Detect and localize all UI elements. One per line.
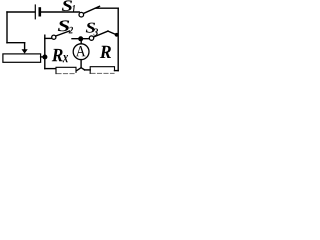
rheostat slider arrowhead — [22, 49, 28, 53]
switch S3 blade — [94, 31, 108, 37]
node junction dot ammeter/S3 — [78, 36, 83, 41]
Rx label subscript x — [63, 55, 68, 62]
wire to rheostat slider — [7, 42, 25, 44]
rheostat slider arrow stem — [24, 43, 26, 50]
switch S2 blade — [56, 31, 70, 36]
Rx label R — [52, 49, 63, 61]
wire battery to S1 — [41, 11, 79, 13]
S1 label S — [62, 0, 72, 11]
wire corner to Rx box — [45, 68, 56, 70]
ammeter label A — [76, 46, 86, 56]
wire ammeter bottom stub — [80, 60, 82, 68]
wire S3 contact lead — [108, 31, 116, 35]
wire right vertical — [117, 8, 119, 70]
wire bottom-right corner to R box — [115, 70, 119, 72]
switch S3 pivot circle — [89, 36, 93, 40]
wire top-left horizontal — [7, 11, 35, 13]
wire rheostat to node A — [41, 56, 45, 58]
ammeter U1 circle — [73, 44, 89, 60]
rheostat box — [3, 54, 41, 62]
S2 label subscript 2 — [69, 27, 73, 34]
wire left vertical — [6, 12, 8, 43]
S3 label S — [86, 23, 95, 33]
wire ammeter top stub — [80, 41, 82, 44]
S3 label subscript 3 — [93, 29, 98, 36]
S1 label subscript 1 — [72, 5, 75, 12]
wire S3 row — [72, 38, 89, 40]
R label — [100, 46, 111, 58]
resistor Rx box — [56, 67, 76, 73]
battery B1 short thick plate — [38, 9, 41, 16]
wire Y-split right — [81, 68, 85, 70]
wire top-right horizontal — [96, 7, 119, 9]
switch S2 pivot circle — [52, 35, 56, 39]
battery B1 long plate — [34, 5, 36, 19]
wire Y-split left to Rx — [77, 68, 81, 71]
wire vertical S2/rheostat branch — [44, 35, 46, 68]
switch S1 blade — [84, 6, 100, 13]
S2 label S — [58, 20, 69, 31]
node junction dot rheostat/S2 — [42, 55, 47, 60]
wire to R box — [85, 69, 91, 71]
resistor R box — [90, 67, 114, 74]
switch S1 pivot circle — [79, 12, 84, 17]
node junction dot S3/right wire — [115, 33, 119, 37]
wire S2 lead — [45, 37, 52, 39]
